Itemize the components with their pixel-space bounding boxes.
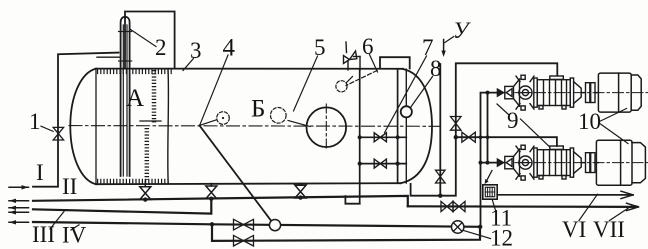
line VII arrow (627, 203, 639, 210)
left arrow row 5 (9, 220, 29, 224)
vessel shell top (96, 68, 403, 70)
pump 9 lower (505, 145, 599, 180)
vent arrow (443, 40, 445, 52)
left inlet arrow I (9, 185, 29, 189)
label 10 leaders (601, 109, 629, 144)
svg-text:Б: Б (251, 96, 265, 123)
svg-text:IV: IV (62, 223, 87, 248)
label 4 leader (200, 55, 228, 125)
vessel shell bottom (96, 183, 401, 184)
discharge line VII (408, 205, 637, 208)
svg-text:8: 8 (430, 56, 442, 81)
label 3 leader (183, 59, 194, 71)
under-vessel valve a (140, 181, 151, 200)
internal column v1 (359, 69, 361, 204)
check valve upper (497, 89, 504, 96)
vent valve (436, 170, 446, 183)
suction manifold line B (487, 93, 489, 163)
drain arrow into cooler (487, 171, 493, 182)
compartment A shelf line (140, 120, 161, 122)
label 1 leader (41, 126, 53, 131)
pipe 2 inner walls (122, 25, 124, 176)
compartment A bottom hatch band (97, 179, 168, 184)
line IV lower branch (212, 224, 480, 241)
suction manifold line A (481, 93, 498, 227)
dashed nozzle circle c1 (217, 112, 230, 125)
suction supply line from vessel bottom (411, 63, 558, 195)
label 2 leader (131, 30, 157, 47)
junction dots line II (143, 195, 482, 229)
vessel right seam / level gauge column (405, 69, 407, 183)
dashed nozzle circle c2 (271, 108, 287, 124)
jumper valve lower (374, 159, 386, 168)
svg-text:3: 3 (190, 38, 202, 63)
safety valve (344, 42, 361, 70)
svg-text:10: 10 (578, 109, 601, 134)
jumper pipe upper (360, 136, 407, 138)
svg-text:5: 5 (314, 35, 326, 60)
top box on vessel (125, 12, 175, 68)
svg-text:У: У (453, 18, 471, 43)
internal column v2 (397, 69, 399, 183)
steam bump 6 on vessel top (380, 57, 410, 68)
pipe 2 outer walls with dome (121, 17, 130, 176)
label 5 leader (294, 56, 318, 111)
compartment A upper hatched wall (152, 70, 157, 124)
svg-text:1: 1 (29, 109, 41, 134)
svg-text:VI: VI (562, 217, 586, 242)
compartment A top hatch band (97, 69, 172, 74)
vessel left head seam (95, 69, 97, 185)
inlet second line (97, 56, 121, 58)
label 12 leader (464, 231, 491, 239)
left arrow row 3 (9, 206, 29, 210)
drain valve pair lower (234, 235, 254, 246)
loop seal circle (269, 220, 280, 231)
lower pump discharge header (456, 137, 557, 146)
svg-text:VII: VII (593, 217, 625, 242)
suction riser valve (451, 117, 462, 131)
line VI with arrow (497, 194, 633, 196)
jumper valve upper (374, 133, 386, 142)
left arrow row 4 (9, 210, 29, 214)
vessel centerline (dash-dot) (69, 125, 440, 128)
v1 bottom jog (345, 196, 359, 204)
regulating valve 12 (circle with cross) (452, 221, 464, 233)
bottom drain line II (33, 196, 408, 206)
line III (33, 199, 211, 214)
manifold dots (479, 91, 490, 165)
pipe 2 cross ticks (119, 31, 132, 33)
vessel right head (401, 69, 433, 183)
dashed nozzle circle c3 (336, 81, 347, 92)
motor 10 upper (598, 73, 641, 112)
valve 1 (53, 127, 63, 140)
manhole circle (307, 107, 347, 147)
overflow diagonal pipe (200, 126, 272, 221)
vent line U (439, 64, 441, 196)
svg-text:4: 4 (223, 35, 236, 62)
svg-text:9: 9 (507, 108, 519, 133)
discharge double valve on line VII (441, 201, 453, 211)
node point leader stub to c1 (200, 120, 217, 126)
line IV (33, 222, 480, 227)
small interior line (288, 121, 310, 127)
pump 9 upper (505, 75, 599, 110)
label III leader (50, 212, 64, 230)
label IV leader (71, 225, 79, 230)
header valve (462, 132, 475, 142)
svg-text:III: III (32, 222, 55, 247)
svg-text:I: I (36, 160, 44, 185)
label 6 leader (370, 55, 378, 73)
dot on suction line (438, 193, 442, 197)
svg-text:А: А (126, 85, 144, 112)
label 8 leader (411, 77, 433, 108)
pump unit upper (497, 73, 648, 112)
check valve lower (497, 159, 504, 166)
lower suction line (481, 162, 498, 164)
left arrow row 2 (9, 199, 29, 203)
vessel left head (70, 69, 96, 185)
drain valve pair upper (234, 219, 254, 230)
svg-text:12: 12 (490, 226, 513, 249)
compartment A right wall (167, 69, 170, 183)
c3 leader (347, 77, 353, 83)
hidden steam pipe (dashed) (346, 71, 377, 86)
motor axis lower (515, 162, 648, 164)
manhole vertical centerline (325, 104, 327, 151)
label U leader (445, 37, 454, 43)
svg-text:2: 2 (155, 35, 167, 60)
label 9 leaders (497, 104, 549, 146)
under-vessel valve c (295, 183, 306, 198)
motor 10 lower (596, 140, 645, 185)
pump unit lower (497, 140, 648, 185)
under-vessel valve b (206, 184, 217, 199)
sample cooler 11 (483, 185, 497, 199)
svg-text:II: II (62, 174, 77, 199)
motor axis upper (515, 92, 648, 94)
compartment A lower hatched wall (145, 128, 150, 180)
label 7 leader (385, 56, 427, 133)
label 11 leader (493, 201, 497, 213)
level gauge circle 8 (401, 106, 412, 117)
inlet line I riser (33, 53, 119, 187)
jumper pipe lower (360, 163, 407, 165)
svg-text:6: 6 (362, 34, 374, 59)
label VII leader (610, 206, 632, 221)
label VI leader (579, 194, 598, 220)
junction dots on columns (358, 135, 400, 166)
